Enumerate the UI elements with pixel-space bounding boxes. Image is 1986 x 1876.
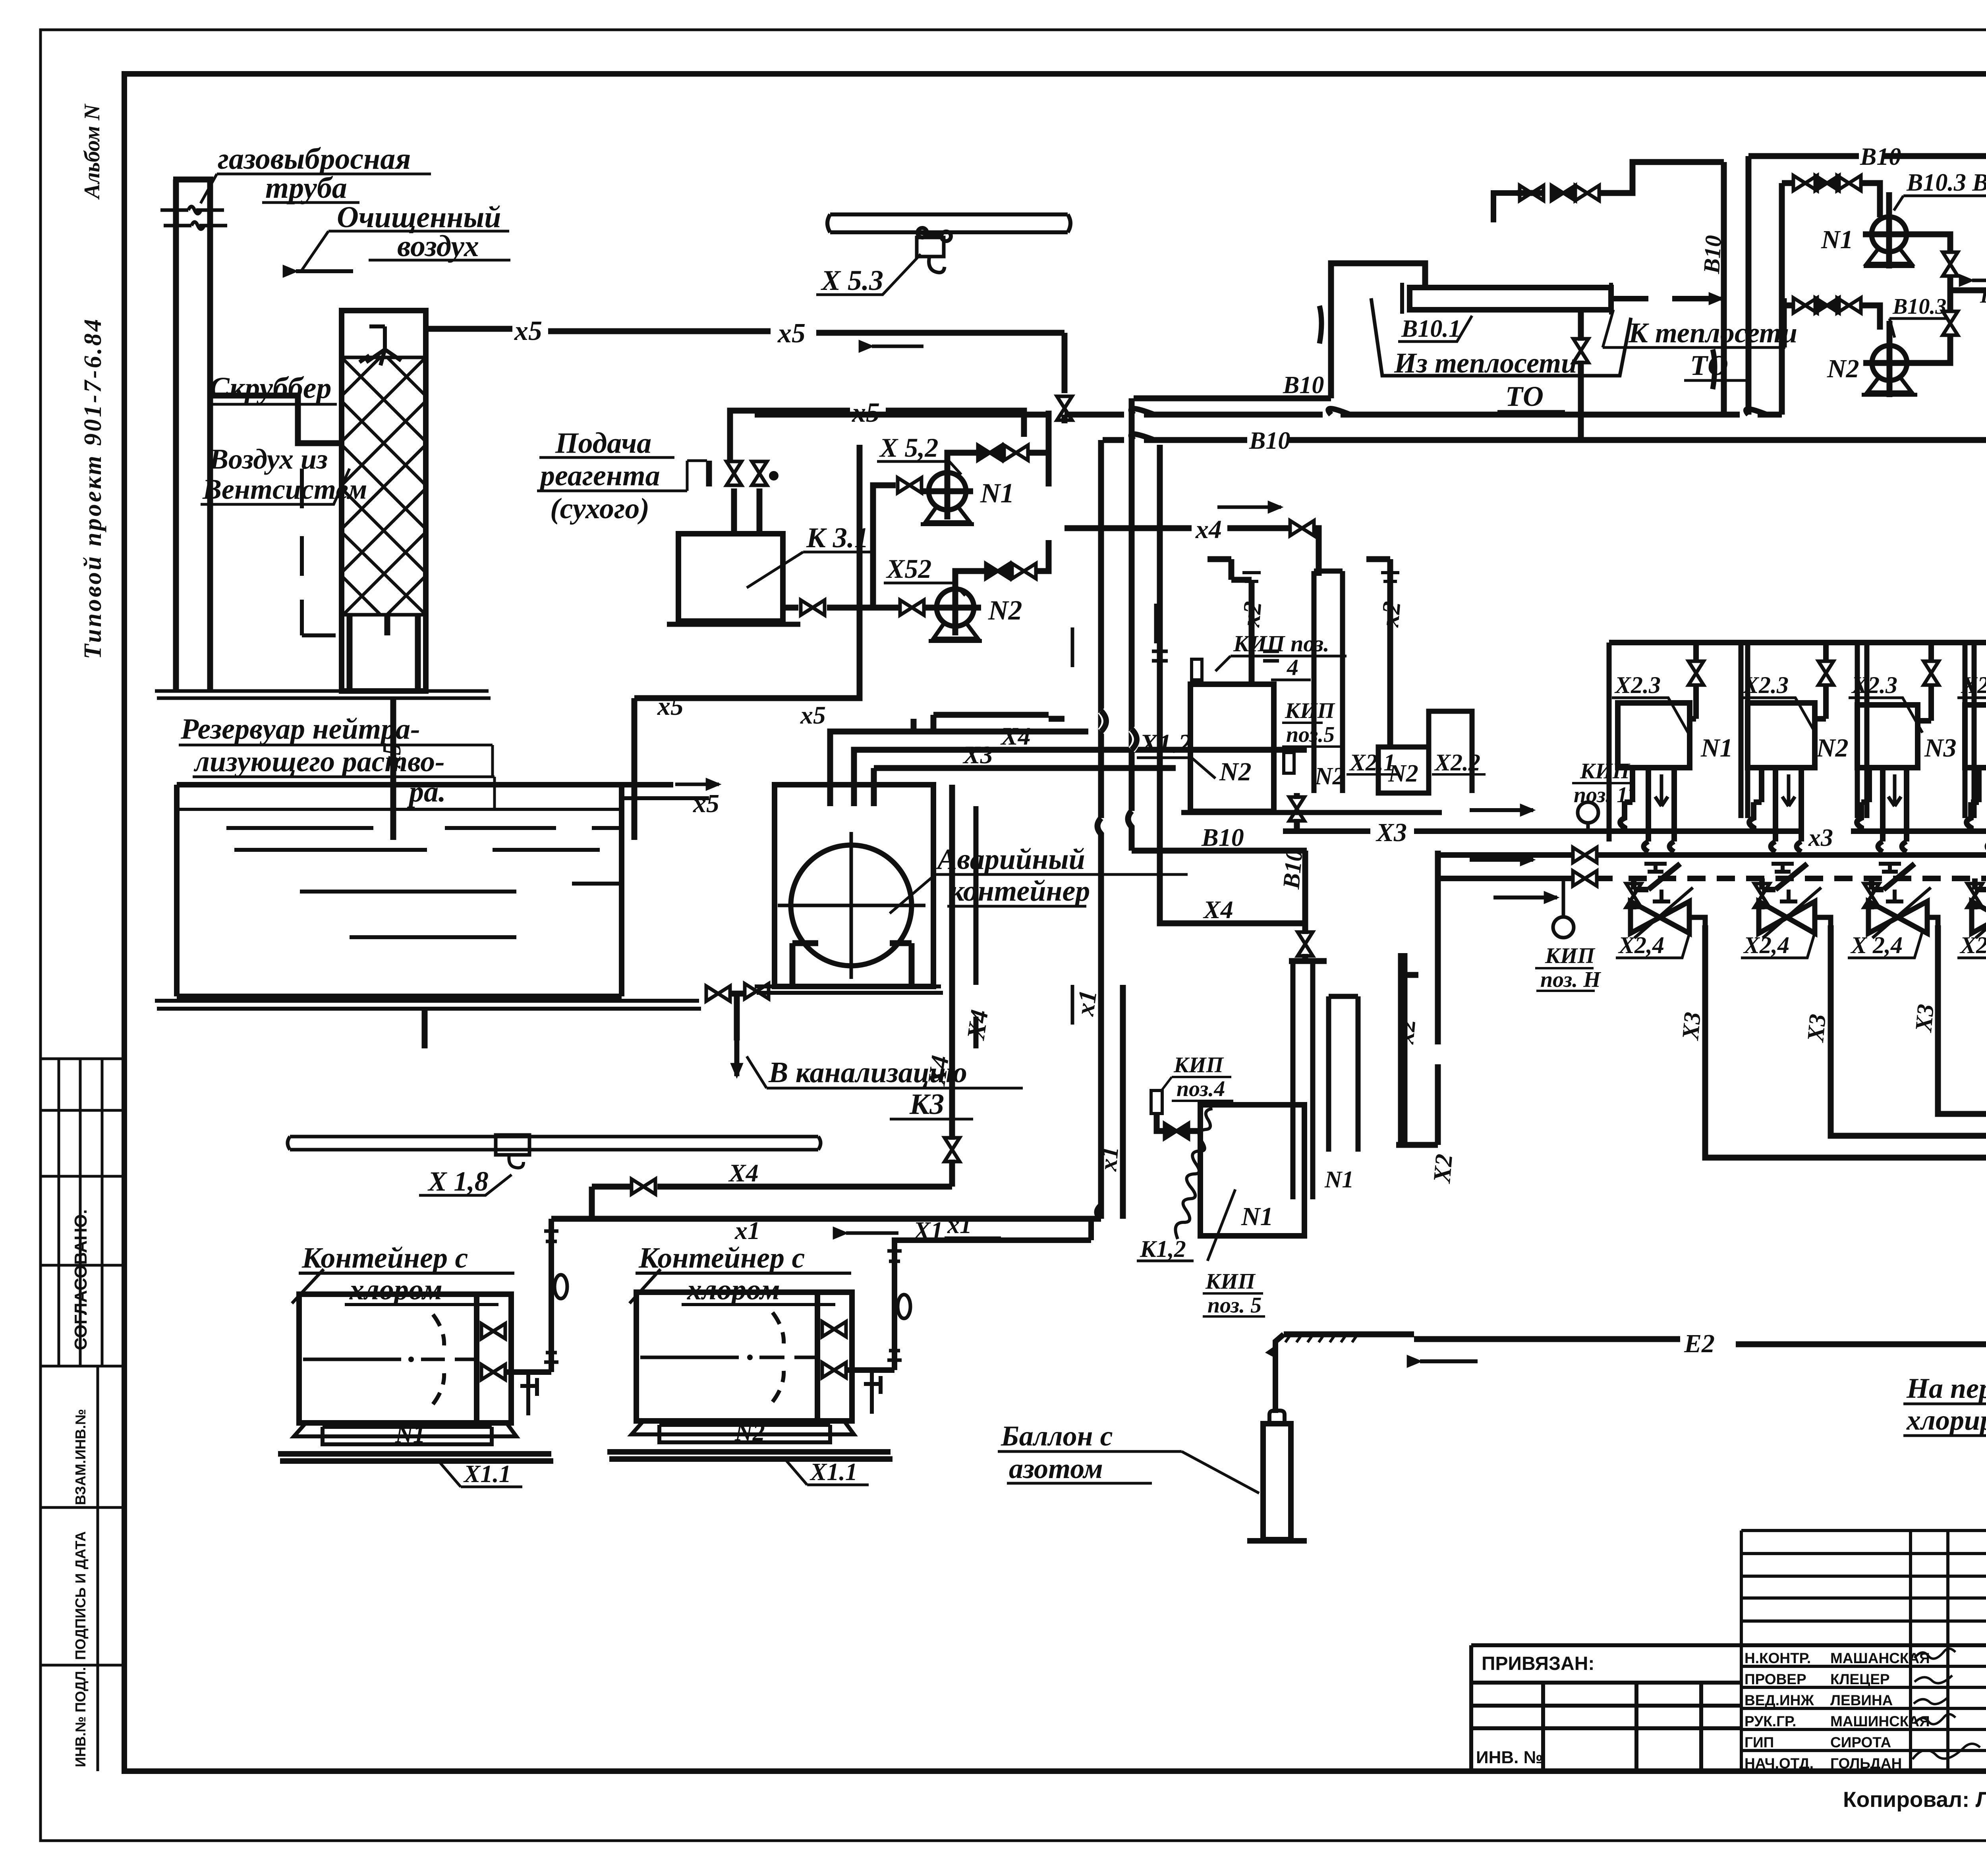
dashed manifold xyxy=(1438,876,1613,881)
svg-text:реагента: реагента xyxy=(538,459,660,492)
svg-text:N1: N1 xyxy=(1241,1202,1273,1231)
label konteyner s khlorom no.2 xyxy=(638,1242,805,1306)
X5 riser below valve xyxy=(1062,415,1068,423)
svg-text:Х2.3: Х2.3 xyxy=(1851,672,1897,698)
nitrogen cylinder riser xyxy=(1275,1334,1284,1413)
pump N2 xyxy=(1872,345,1907,380)
emergency container outer box xyxy=(775,785,933,986)
svg-text:СИРОТА: СИРОТА xyxy=(1830,1734,1891,1751)
labels on nest xyxy=(800,701,826,729)
svg-text:Из теплосети: Из теплосети xyxy=(1394,347,1577,379)
svg-text:КИП: КИП xyxy=(1173,1053,1224,1077)
X3 down pipes from units xyxy=(1705,925,1986,1158)
svg-text:К1,2: К1,2 xyxy=(1140,1236,1186,1262)
label X1.2 K1.2 bottom xyxy=(1140,1236,1186,1262)
svg-text:азотом: азотом xyxy=(1009,1453,1103,1484)
pipe X5 from scrubber to right xyxy=(426,329,1064,393)
second X5 nest line xyxy=(933,715,1049,731)
svg-text:Контейнер с: Контейнер с xyxy=(638,1242,805,1274)
names rows xyxy=(1745,1650,1930,1772)
risers continue down xyxy=(1097,811,1132,1219)
label avariyny konteyner xyxy=(936,843,1090,907)
label ochishchenny vozdukh xyxy=(337,201,501,263)
svg-text:ВЗАМ.ИНВ.№: ВЗАМ.ИНВ.№ xyxy=(72,1409,89,1505)
pump N1 discharge to valve B10.3 xyxy=(1907,234,1950,253)
reservoir water level xyxy=(180,808,620,811)
svg-text:контейнер: контейнер xyxy=(949,875,1090,907)
svg-text:Х3: Х3 xyxy=(1802,1013,1831,1044)
HX outlet dashed to B10 riser xyxy=(1611,296,1712,301)
pipe label X5 xyxy=(514,316,806,349)
svg-text:Х2,4: Х2,4 xyxy=(1618,932,1664,958)
flow arrow on E2 xyxy=(1420,1359,1478,1363)
pump feed valve N2 xyxy=(900,600,924,615)
svg-text:N2: N2 xyxy=(734,1419,765,1446)
svg-text:Альбом N: Альбом N xyxy=(80,103,104,200)
svg-text:х1: х1 xyxy=(1070,988,1102,1018)
chlorinator unit N2 xyxy=(1740,643,1849,841)
X2 down pipe xyxy=(1396,953,1438,1145)
X1 line bottom from containers xyxy=(551,1216,1101,1222)
svg-text:х4: х4 xyxy=(1195,515,1222,544)
svg-text:Копировал: Логинова: Копировал: Логинова xyxy=(1843,1787,1986,1812)
scrubber spray nozzle xyxy=(359,326,401,365)
svg-text:N3: N3 xyxy=(1924,733,1957,762)
chlorinator unit N3 xyxy=(1849,643,1957,841)
long beam above containers xyxy=(288,1137,821,1150)
X4 branch to right xyxy=(1160,445,1307,923)
svg-text:поз.5: поз.5 xyxy=(1286,722,1335,747)
svg-text:хлором: хлором xyxy=(687,1274,780,1306)
junction line into tank B10.2 xyxy=(1950,288,1986,293)
sidebar table grid lower xyxy=(41,1366,124,1771)
X1 junction up to evaporators xyxy=(1097,1205,1101,1219)
chlorinator units top rail xyxy=(1609,640,1986,645)
label podacha reagenta xyxy=(538,427,660,525)
lower B10 riser from X3 area down xyxy=(1289,851,1327,961)
svg-text:поз. 11: поз. 11 xyxy=(1574,783,1638,807)
X4 line bottom to containers xyxy=(592,1187,952,1219)
X2.4 control valves (large) xyxy=(1631,888,1986,938)
svg-text:поз. 5: поз. 5 xyxy=(1207,1293,1262,1318)
X2 line from lower evap going up-right xyxy=(1435,851,1441,1145)
svg-text:поз.4: поз.4 xyxy=(1177,1077,1225,1101)
evaporator tank N2 (X1.2) xyxy=(1190,684,1274,811)
svg-text:х2: х2 xyxy=(1376,600,1406,628)
KIP poz.11 circles xyxy=(1578,802,1598,823)
label iz teploseti TO xyxy=(1394,347,1577,412)
reagent feed pipe down xyxy=(706,461,712,486)
svg-text:х5: х5 xyxy=(514,316,542,346)
svg-text:ПРИВЯЗАН:: ПРИВЯЗАН: xyxy=(1482,1653,1594,1674)
tank K3.1 base xyxy=(667,622,800,627)
pump N2 suction valves xyxy=(1782,305,1880,330)
svg-text:КИП: КИП xyxy=(1205,1269,1256,1294)
valve on X4 top xyxy=(1290,521,1314,536)
small box N2 (X2.2) xyxy=(1378,747,1429,793)
svg-text:N1: N1 xyxy=(1324,1166,1354,1193)
svg-text:Воздух из: Воздух из xyxy=(209,443,328,475)
svg-text:ИНВ.№ ПОДЛ.: ИНВ.№ ПОДЛ. xyxy=(72,1667,89,1767)
svg-text:Х1.1: Х1.1 xyxy=(463,1461,511,1488)
flow arrow on X5 xyxy=(872,345,923,348)
iz teploseti trapezoid xyxy=(1371,298,1631,376)
container N1 skid and base xyxy=(294,1423,516,1444)
svg-text:КИП: КИП xyxy=(1545,944,1596,968)
svg-text:х2: х2 xyxy=(1392,1018,1421,1046)
N1 evaporator box lower xyxy=(1200,1105,1304,1236)
svg-text:ГИП: ГИП xyxy=(1745,1734,1774,1751)
scrubber vessel xyxy=(342,311,426,691)
label X1.1 first xyxy=(463,1461,511,1488)
svg-text:Х1.1: Х1.1 xyxy=(809,1459,858,1486)
svg-text:хлорирование: хлорирование xyxy=(1906,1404,1986,1436)
svg-text:Подача: Подача xyxy=(555,427,651,459)
cylinder base xyxy=(1247,1538,1307,1544)
annex privyazan xyxy=(1471,1645,1986,1771)
E2 line bottom xyxy=(1284,1334,1986,1346)
pump N2 lower xyxy=(937,589,974,626)
svg-text:Х1.2: Х1.2 xyxy=(1139,728,1192,759)
svg-text:ЛЕВИНА: ЛЕВИНА xyxy=(1830,1692,1893,1708)
svg-text:ПОДПИСЬ И ДАТА: ПОДПИСЬ И ДАТА xyxy=(72,1531,89,1660)
label X5.2 upper xyxy=(879,432,938,463)
X2 riser left xyxy=(1207,559,1252,684)
svg-text:Аварийный: Аварийный xyxy=(936,843,1085,876)
svg-text:РУК.ГР.: РУК.ГР. xyxy=(1745,1713,1796,1729)
svg-text:х1: х1 xyxy=(947,1212,972,1239)
K3.1 outlet valve to pumps xyxy=(783,605,798,611)
water surface dashes xyxy=(226,828,620,937)
svg-text:х1: х1 xyxy=(1095,1145,1124,1173)
svg-text:Очищенный: Очищенный xyxy=(337,201,501,234)
lower evaporator columns pair xyxy=(1329,996,1358,1152)
svg-text:Х4: Х4 xyxy=(922,1054,954,1088)
svg-text:лизующего раство-: лизующего раство- xyxy=(193,745,445,778)
svg-text:х5: х5 xyxy=(693,789,719,818)
svg-text:Х3: Х3 xyxy=(1910,1003,1939,1034)
svg-text:Х3: Х3 xyxy=(1677,1011,1706,1042)
svg-text:В10: В10 xyxy=(1283,372,1324,399)
svg-text:N1: N1 xyxy=(395,1421,425,1448)
svg-text:Х2,3: Х2,3 xyxy=(1961,672,1986,698)
label ballon s azotom xyxy=(1001,1420,1113,1484)
KIP poz.5 label xyxy=(1285,699,1335,747)
svg-text:х3: х3 xyxy=(1808,824,1833,851)
label B10.3 B10.2 xyxy=(1906,169,1986,196)
X4 top line over evaporators xyxy=(1064,528,1319,576)
reservoir bottom platform xyxy=(155,1001,701,1009)
svg-text:В10: В10 xyxy=(1860,143,1901,170)
gas exhaust stack (chimney) xyxy=(173,179,213,691)
label X1.1 second xyxy=(809,1459,858,1486)
svg-text:х5: х5 xyxy=(657,692,684,721)
label gazovybrosnaya truba xyxy=(218,142,411,205)
X1 vertical to N1 evap xyxy=(1120,985,1126,1219)
svg-text:х1: х1 xyxy=(734,1216,760,1245)
valve to N1 evaporator xyxy=(1165,1123,1188,1139)
X4 long vertical down-left xyxy=(949,785,955,1187)
B10 horizontal no.3 / V1 line xyxy=(1103,437,1986,443)
reservoir drain valves xyxy=(706,986,730,1001)
B10 horizontal no.1 xyxy=(1134,263,1425,398)
svg-text:Х2,4: Х2,4 xyxy=(1959,932,1986,958)
svg-text:На первичное: На первичное xyxy=(1906,1372,1986,1404)
svg-text:СОГЛАСОВАНО.: СОГЛАСОВАНО. xyxy=(71,1209,91,1350)
B10 branch to right xyxy=(1132,848,1307,854)
X3 upper manifold xyxy=(1283,831,1986,866)
svg-text:ВЕД.ИНЖ: ВЕД.ИНЖ xyxy=(1745,1692,1814,1708)
X2.4 drop with small valves and control valves row xyxy=(1634,864,1986,890)
reservoir tank xyxy=(177,785,673,996)
svg-text:КЛЕЦЕР: КЛЕЦЕР xyxy=(1830,1671,1890,1687)
svg-text:N1: N1 xyxy=(1821,225,1853,254)
svg-text:Х2.3: Х2.3 xyxy=(1742,672,1789,698)
svg-text:ра.: ра. xyxy=(407,776,446,808)
svg-text:В10.1: В10.1 xyxy=(1401,315,1461,342)
riser jog arcs at crossings xyxy=(1101,711,1136,750)
container pedestal xyxy=(792,943,912,986)
hoist trolley on beam X1.8 xyxy=(496,1135,529,1155)
dip pipe X5 into reservoir xyxy=(390,698,396,840)
X5 recirculation loop line xyxy=(730,411,1024,461)
flow arrows on X3 xyxy=(1470,808,1533,812)
pump N2 discharge valve B10.3 lower xyxy=(1907,335,1950,363)
riser from N1 to X1 line xyxy=(528,1219,551,1372)
container N2 skid and base xyxy=(632,1421,854,1442)
svg-text:труба: труба xyxy=(265,171,347,205)
reservoir outlet arrow X5 to emergency container xyxy=(622,796,709,800)
sidebar table grid upper xyxy=(41,1059,124,1366)
KIP poz.4 lower xyxy=(1173,1053,1225,1101)
svg-text:х2: х2 xyxy=(1236,600,1267,628)
svg-text:Х 5,2: Х 5,2 xyxy=(879,432,938,463)
header left drop to collector xyxy=(1746,156,1752,415)
svg-text:В10.3 В10.2: В10.3 В10.2 xyxy=(1906,169,1986,196)
svg-text:х5: х5 xyxy=(777,318,806,349)
handwritten scribble annotation xyxy=(1147,1107,1241,1240)
label X1.8 xyxy=(427,1166,489,1197)
pump N1 suction valves xyxy=(1782,183,1880,217)
svg-text:ГОЛЬДАН: ГОЛЬДАН xyxy=(1830,1755,1902,1772)
flow arrows beside risers xyxy=(1072,604,1156,1025)
pump N1 suction valve xyxy=(898,478,922,493)
svg-text:N2: N2 xyxy=(1827,354,1859,383)
hatch ticks at E2 left end xyxy=(1285,1334,1358,1342)
stepped box right xyxy=(1429,711,1472,793)
chlorinator unit N1 xyxy=(1612,643,1733,841)
svg-text:В10: В10 xyxy=(1249,427,1290,454)
air duct from ventsystem to scrubber xyxy=(210,396,342,443)
second dip pipe X5 xyxy=(634,445,860,840)
svg-text:(сухого): (сухого) xyxy=(550,492,649,525)
svg-text:поз. Н: поз. Н xyxy=(1540,967,1601,992)
container base line xyxy=(755,986,943,993)
label reservoir neutralizing xyxy=(180,713,446,808)
svg-text:N1: N1 xyxy=(1700,733,1733,762)
X1 label near riser N2 xyxy=(947,1212,972,1239)
label vozdukh iz ventsistem xyxy=(202,443,367,505)
svg-text:ТО: ТО xyxy=(1690,349,1728,381)
svg-text:воздух: воздух xyxy=(397,230,479,263)
svg-text:х5: х5 xyxy=(800,701,826,729)
label scrubber xyxy=(209,371,332,405)
label v kanalizaciyu K3 xyxy=(768,1056,967,1121)
KIP poz.4 upper label xyxy=(1233,631,1329,680)
scrubber packing crosshatch xyxy=(342,357,426,615)
X2.4 labels xyxy=(1618,932,1986,958)
riser from N2 to X1 line xyxy=(872,1219,1091,1370)
svg-text:НАЧ.ОТД.: НАЧ.ОТД. xyxy=(1745,1755,1814,1772)
cleaned air outlet arrow xyxy=(296,269,353,273)
svg-text:КИП: КИП xyxy=(1285,699,1335,723)
svg-text:В10: В10 xyxy=(1278,848,1308,890)
svg-text:Контейнер с: Контейнер с xyxy=(301,1242,468,1274)
svg-text:К теплосети: К теплосети xyxy=(1628,317,1797,349)
svg-text:КИП: КИП xyxy=(1580,759,1631,784)
svg-text:N1: N1 xyxy=(980,478,1014,509)
svg-text:ПРОВЕР: ПРОВЕР xyxy=(1745,1671,1806,1687)
nest feed lines from right xyxy=(830,719,914,806)
chimney break symbol xyxy=(160,207,227,229)
label X5.3 xyxy=(821,264,883,296)
svg-text:Баллон с: Баллон с xyxy=(1001,1420,1113,1452)
svg-text:Е2: Е2 xyxy=(1684,1329,1715,1358)
svg-text:В10: В10 xyxy=(1698,235,1726,275)
svg-text:В10: В10 xyxy=(1980,284,1986,307)
svg-text:Х 5.3: Х 5.3 xyxy=(821,264,883,296)
svg-text:хлором: хлором xyxy=(349,1274,442,1306)
pump N1 discharge valves xyxy=(947,453,977,465)
svg-text:В10: В10 xyxy=(1201,823,1244,851)
X4 second vertical xyxy=(974,806,979,1048)
container with chlorine N2 xyxy=(636,1292,852,1421)
svg-text:Х4: Х4 xyxy=(1203,896,1233,924)
nitrogen cylinder xyxy=(1269,1411,1285,1424)
hoist trolley and hook X5.3 xyxy=(918,228,951,241)
unit drop connections to manifolds (jogs) xyxy=(1644,841,1986,852)
svg-text:Х 1,8: Х 1,8 xyxy=(427,1166,489,1197)
label B10.1 xyxy=(1401,315,1461,342)
tall column X2.1 xyxy=(1314,571,1343,793)
label X1.2 xyxy=(1139,728,1192,759)
labels X2.1 X2.2 xyxy=(1349,749,1480,776)
svg-text:К3: К3 xyxy=(909,1088,944,1121)
svg-text:газовыбросная: газовыбросная xyxy=(218,142,411,176)
units group: frames xyxy=(1609,643,1986,841)
svg-text:Х2.1: Х2.1 xyxy=(1349,749,1395,776)
svg-text:ТО: ТО xyxy=(1505,380,1544,412)
svg-text:В10.3: В10.3 xyxy=(1892,294,1946,319)
nested pipes X5 X4 X3 descending into container xyxy=(830,731,914,806)
svg-text:Вентсистем: Вентсистем xyxy=(202,473,367,505)
svg-text:N2: N2 xyxy=(988,595,1022,626)
X2 riser right xyxy=(1366,559,1390,747)
X3 second manifold xyxy=(1438,852,1986,858)
reagent feed valves pair xyxy=(726,461,742,485)
upper pump N1 xyxy=(929,473,966,510)
label K teploseti TO xyxy=(1628,317,1797,381)
svg-text:Х2,4: Х2,4 xyxy=(1743,932,1789,958)
svg-text:Х4: Х4 xyxy=(961,1008,993,1042)
B10 riser (return) xyxy=(1721,162,1727,415)
svg-text:Х2: Х2 xyxy=(1428,1153,1458,1185)
feed pipes into tank K3.1 xyxy=(734,488,759,534)
bundle lines to deconta right with arrows xyxy=(1930,1038,1986,1158)
lower collector line B10 xyxy=(755,411,1782,486)
KIP sensor on tank xyxy=(1192,659,1202,680)
KIP poz.5 bottom xyxy=(1205,1269,1262,1318)
flow tick pairs on risers xyxy=(1152,651,1279,661)
label na pervichnoe khlorirovanie xyxy=(1906,1372,1986,1436)
heat exchanger TO xyxy=(1410,288,1611,310)
sensor box on column xyxy=(1284,753,1294,773)
evaporator base xyxy=(1181,810,1442,815)
svg-text:Х52: Х52 xyxy=(886,554,931,584)
container with chlorine N1 xyxy=(299,1294,511,1423)
drain valve from HX to V1 line xyxy=(1578,311,1584,440)
svg-text:Х3: Х3 xyxy=(1376,818,1407,847)
tank K3.1 xyxy=(678,534,783,621)
label K3.1 xyxy=(806,522,869,554)
valve stand right of N1 xyxy=(520,1372,537,1415)
svg-text:4: 4 xyxy=(1287,654,1298,680)
names column grid xyxy=(1741,1531,1986,1771)
T-connectors below manifold xyxy=(1644,864,1986,901)
B10 pump header xyxy=(1748,156,1986,212)
svg-text:Х2.3: Х2.3 xyxy=(1614,672,1661,698)
svg-text:N2: N2 xyxy=(1314,763,1345,790)
label konteyner s khlorom no.1 xyxy=(301,1242,468,1306)
svg-text:Х 2,4: Х 2,4 xyxy=(1850,932,1903,958)
valve on X5 riser xyxy=(1057,396,1072,420)
svg-text:Х4: Х4 xyxy=(728,1159,759,1187)
label X5.2 lower xyxy=(886,554,931,584)
scrubber base platform xyxy=(155,691,491,698)
pump N2 discharge up through valves xyxy=(955,571,985,581)
valve below evap platform xyxy=(1294,793,1300,831)
svg-text:Н.КОНТР.: Н.КОНТР. xyxy=(1745,1650,1811,1666)
suction riser xyxy=(1779,183,1785,415)
scrubber support columns and base xyxy=(350,615,418,690)
label B10.3 lower xyxy=(1892,294,1946,319)
scrubber internal pipe dashed xyxy=(302,469,336,635)
valve on second manifold xyxy=(1573,847,1597,863)
emergency container drum circle xyxy=(791,845,912,966)
drain to sewer K3 arrow xyxy=(734,1040,740,1076)
X3 rotated labels on down pipes xyxy=(1677,959,1986,1044)
svg-text:Скруббер: Скруббер xyxy=(209,371,332,405)
flow tick on B10 riser xyxy=(1319,306,1321,344)
svg-text:Х2.2: Х2.2 xyxy=(1434,749,1480,776)
pipes X5 X4 X3 horizontals from risers to nest xyxy=(874,719,1307,768)
chlorinator unit N4 xyxy=(1957,643,1986,841)
monorail beam with hoist xyxy=(827,214,1070,272)
signatures squiggles xyxy=(1913,1648,1980,1759)
valve stand right of N2 xyxy=(864,1370,881,1414)
pump N1 xyxy=(1872,217,1907,252)
svg-text:Х3: Х3 xyxy=(962,741,993,769)
svg-text:N2: N2 xyxy=(1816,733,1849,762)
svg-text:Резервуар нейтра-: Резервуар нейтра- xyxy=(180,713,420,745)
return line to heat network with valve triple xyxy=(1517,162,1724,193)
svg-text:Типовой проект 901-7-6.84: Типовой проект 901-7-6.84 xyxy=(79,317,106,659)
svg-text:Х4: Х4 xyxy=(1000,722,1031,750)
svg-text:N2: N2 xyxy=(1219,757,1252,786)
X1 riser label xyxy=(1070,988,1102,1018)
reservoir overflow pipe stub xyxy=(422,1009,428,1048)
svg-text:ИНВ. №: ИНВ. № xyxy=(1476,1748,1543,1767)
